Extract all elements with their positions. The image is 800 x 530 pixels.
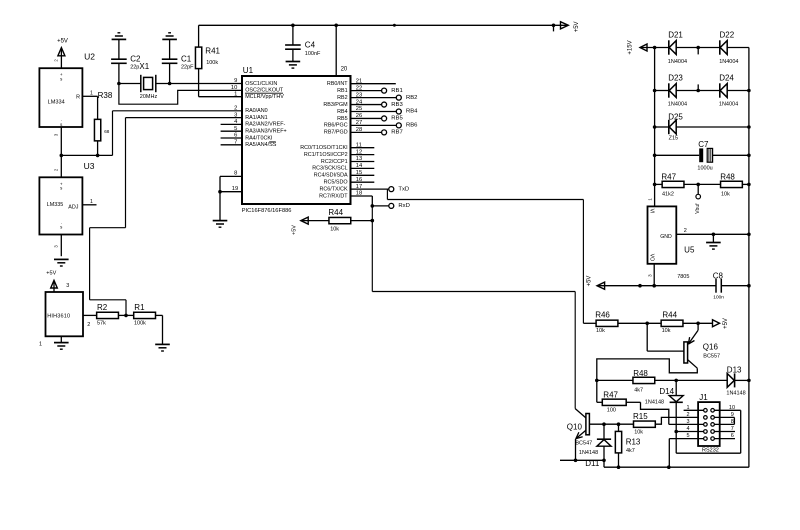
svg-text:1N4148: 1N4148 (645, 400, 664, 406)
svg-text:C8: C8 (713, 271, 724, 280)
svg-text:+5V: +5V (291, 225, 297, 235)
svg-text:9: 9 (731, 412, 734, 418)
svg-text:C7: C7 (698, 140, 709, 149)
svg-text:TxD: TxD (398, 186, 409, 192)
svg-text:RB3/PGM: RB3/PGM (323, 102, 348, 108)
svg-text:1N4004: 1N4004 (668, 101, 687, 107)
svg-text:RA2/AN2/VREF-: RA2/AN2/VREF- (245, 122, 285, 128)
svg-text:1: 1 (687, 405, 690, 411)
svg-text:9: 9 (234, 78, 237, 84)
svg-text:BC547: BC547 (575, 441, 592, 447)
svg-text:7805: 7805 (677, 274, 689, 280)
svg-text:1: 1 (90, 199, 93, 205)
svg-text:RB5: RB5 (337, 116, 348, 122)
svg-text:7: 7 (731, 426, 734, 432)
svg-text:RC4/SDI/SDA: RC4/SDI/SDA (314, 173, 348, 179)
svg-text:RB1: RB1 (337, 88, 348, 94)
svg-text:R44: R44 (662, 310, 677, 319)
svg-text:R13: R13 (626, 438, 641, 447)
svg-text:1N4004: 1N4004 (668, 59, 687, 65)
svg-text:3: 3 (66, 283, 69, 289)
svg-text:10k: 10k (596, 328, 605, 334)
svg-text:68: 68 (104, 129, 110, 134)
svg-text:RB4: RB4 (337, 109, 348, 115)
svg-text:D22: D22 (720, 30, 735, 39)
svg-text:RC0/T1OSO/T1CKI: RC0/T1OSO/T1CKI (300, 145, 347, 151)
svg-text:20: 20 (341, 67, 348, 73)
svg-text:RA5/AN4/SS: RA5/AN4/SS (245, 142, 277, 148)
svg-text:1N4004: 1N4004 (719, 101, 738, 107)
svg-text:100nF: 100nF (305, 51, 321, 57)
svg-text:R2: R2 (97, 303, 108, 312)
svg-text:10k: 10k (330, 227, 339, 233)
svg-text:U5: U5 (684, 245, 695, 254)
svg-text:RC5/SDO: RC5/SDO (324, 180, 348, 186)
svg-text:RC2/CCP1: RC2/CCP1 (321, 159, 348, 165)
svg-text:U2: U2 (84, 52, 95, 62)
svg-text:RB2: RB2 (337, 95, 348, 101)
svg-text:RB6/PGC: RB6/PGC (324, 123, 348, 129)
svg-text:4k7: 4k7 (626, 448, 635, 454)
svg-text:RB5: RB5 (391, 116, 403, 122)
svg-text:D24: D24 (719, 73, 734, 82)
svg-text:RA0/AN0: RA0/AN0 (245, 108, 267, 114)
svg-text:D14: D14 (659, 387, 674, 396)
svg-text:1N4148: 1N4148 (726, 390, 745, 396)
svg-text:R47: R47 (603, 390, 618, 399)
svg-text:R44: R44 (328, 208, 343, 217)
svg-text:57k: 57k (97, 320, 106, 326)
svg-text:C4: C4 (305, 41, 316, 50)
svg-text:RA3/AN3/VREF+: RA3/AN3/VREF+ (245, 129, 287, 135)
svg-text:+5V: +5V (723, 318, 729, 329)
svg-text:D25: D25 (668, 112, 683, 121)
svg-text:8: 8 (731, 419, 734, 425)
svg-text:1: 1 (39, 341, 42, 347)
svg-text:RB6: RB6 (406, 123, 418, 129)
svg-text:22p: 22p (130, 65, 139, 71)
svg-text:R48: R48 (633, 369, 648, 378)
svg-text:X1: X1 (139, 62, 149, 71)
svg-text:J1: J1 (699, 393, 708, 402)
svg-text:1N4004: 1N4004 (719, 59, 738, 65)
svg-text:Vbuf: Vbuf (695, 203, 701, 214)
svg-text:OSC1/CLKIN: OSC1/CLKIN (245, 81, 277, 87)
svg-text:8: 8 (234, 171, 237, 177)
svg-text:10: 10 (729, 405, 735, 411)
svg-text:3: 3 (687, 419, 690, 425)
svg-text:Q16: Q16 (703, 343, 719, 352)
svg-text:R38: R38 (98, 91, 113, 100)
svg-text:RB4: RB4 (406, 109, 418, 115)
svg-text:+5V: +5V (57, 39, 68, 45)
svg-text:+5V: +5V (46, 271, 56, 277)
svg-text:RB0/INT: RB0/INT (327, 81, 348, 87)
svg-text:LM334: LM334 (48, 99, 65, 105)
svg-text:10k: 10k (662, 328, 671, 334)
svg-text:2: 2 (234, 106, 237, 112)
svg-text:U3: U3 (84, 161, 95, 171)
svg-text:D13: D13 (727, 365, 742, 374)
svg-text:100k: 100k (206, 60, 218, 66)
svg-text:100n: 100n (713, 294, 724, 300)
svg-text:D23: D23 (668, 73, 683, 82)
svg-text:PIC16F876/16F886: PIC16F876/16F886 (242, 208, 292, 214)
svg-text:2: 2 (87, 322, 90, 328)
svg-text:RC6/TX/CK: RC6/TX/CK (319, 186, 348, 192)
svg-text:5: 5 (687, 433, 690, 439)
svg-text:+5V: +5V (574, 21, 580, 32)
svg-text:R15: R15 (633, 412, 648, 421)
svg-text:+5V: +5V (587, 276, 593, 287)
svg-text:Q10: Q10 (567, 422, 583, 431)
svg-text:RA4/T0CKI: RA4/T0CKI (245, 135, 272, 141)
svg-text:20MHz: 20MHz (140, 94, 158, 100)
svg-text:R41: R41 (205, 47, 220, 56)
svg-text:2: 2 (684, 228, 687, 234)
svg-text:1000u: 1000u (697, 166, 712, 172)
svg-text:3: 3 (234, 112, 237, 118)
svg-text:RB2: RB2 (406, 95, 417, 101)
svg-text:100k: 100k (134, 320, 146, 326)
svg-text:10k: 10k (721, 192, 730, 198)
svg-text:4k7: 4k7 (634, 388, 643, 394)
svg-text:100: 100 (607, 408, 616, 414)
svg-text:R46: R46 (595, 310, 610, 319)
svg-text:2: 2 (687, 412, 690, 418)
svg-text:6: 6 (731, 433, 734, 439)
svg-text:41k2: 41k2 (662, 192, 674, 198)
svg-text:10: 10 (231, 85, 237, 91)
svg-text:R47: R47 (661, 172, 676, 181)
svg-text:RB1: RB1 (391, 88, 402, 94)
svg-text:+15V: +15V (628, 40, 634, 54)
svg-text:GND: GND (660, 234, 672, 240)
svg-text:VI: VI (649, 209, 655, 214)
svg-text:1: 1 (234, 91, 237, 97)
svg-text:RA1/AN1: RA1/AN1 (245, 115, 267, 121)
svg-text:19: 19 (232, 186, 238, 192)
svg-text:LM335: LM335 (47, 202, 63, 208)
svg-text:1: 1 (90, 91, 93, 97)
svg-text:RC7/RX/DT: RC7/RX/DT (319, 193, 348, 199)
svg-text:1N4148: 1N4148 (579, 450, 598, 456)
svg-text:C1: C1 (181, 54, 192, 63)
svg-text:R48: R48 (720, 172, 735, 181)
svg-text:RB7: RB7 (391, 130, 402, 136)
svg-text:HIH3610: HIH3610 (47, 314, 70, 320)
svg-text:RC1/T1OSI/CCP2: RC1/T1OSI/CCP2 (304, 152, 348, 158)
svg-text:R: R (76, 95, 80, 101)
svg-text:22pF: 22pF (181, 65, 194, 71)
svg-text:RS232: RS232 (702, 447, 719, 453)
svg-text:10k: 10k (634, 430, 643, 436)
svg-text:RxD: RxD (398, 203, 409, 209)
svg-text:MCLR/Vpp/THV: MCLR/Vpp/THV (245, 94, 284, 100)
svg-text:VO: VO (649, 254, 655, 261)
svg-text:Z15: Z15 (669, 136, 678, 142)
svg-text:D21: D21 (668, 30, 683, 39)
svg-text:BC557: BC557 (703, 353, 720, 359)
svg-text:U1: U1 (243, 66, 254, 75)
svg-text:4: 4 (687, 426, 690, 432)
svg-text:RC3/SCK/SCL: RC3/SCK/SCL (312, 166, 347, 172)
svg-text:RB7/PGD: RB7/PGD (324, 130, 348, 136)
svg-text:R1: R1 (134, 303, 145, 312)
svg-text:ADJ: ADJ (68, 205, 78, 211)
svg-text:RB3: RB3 (391, 102, 403, 108)
